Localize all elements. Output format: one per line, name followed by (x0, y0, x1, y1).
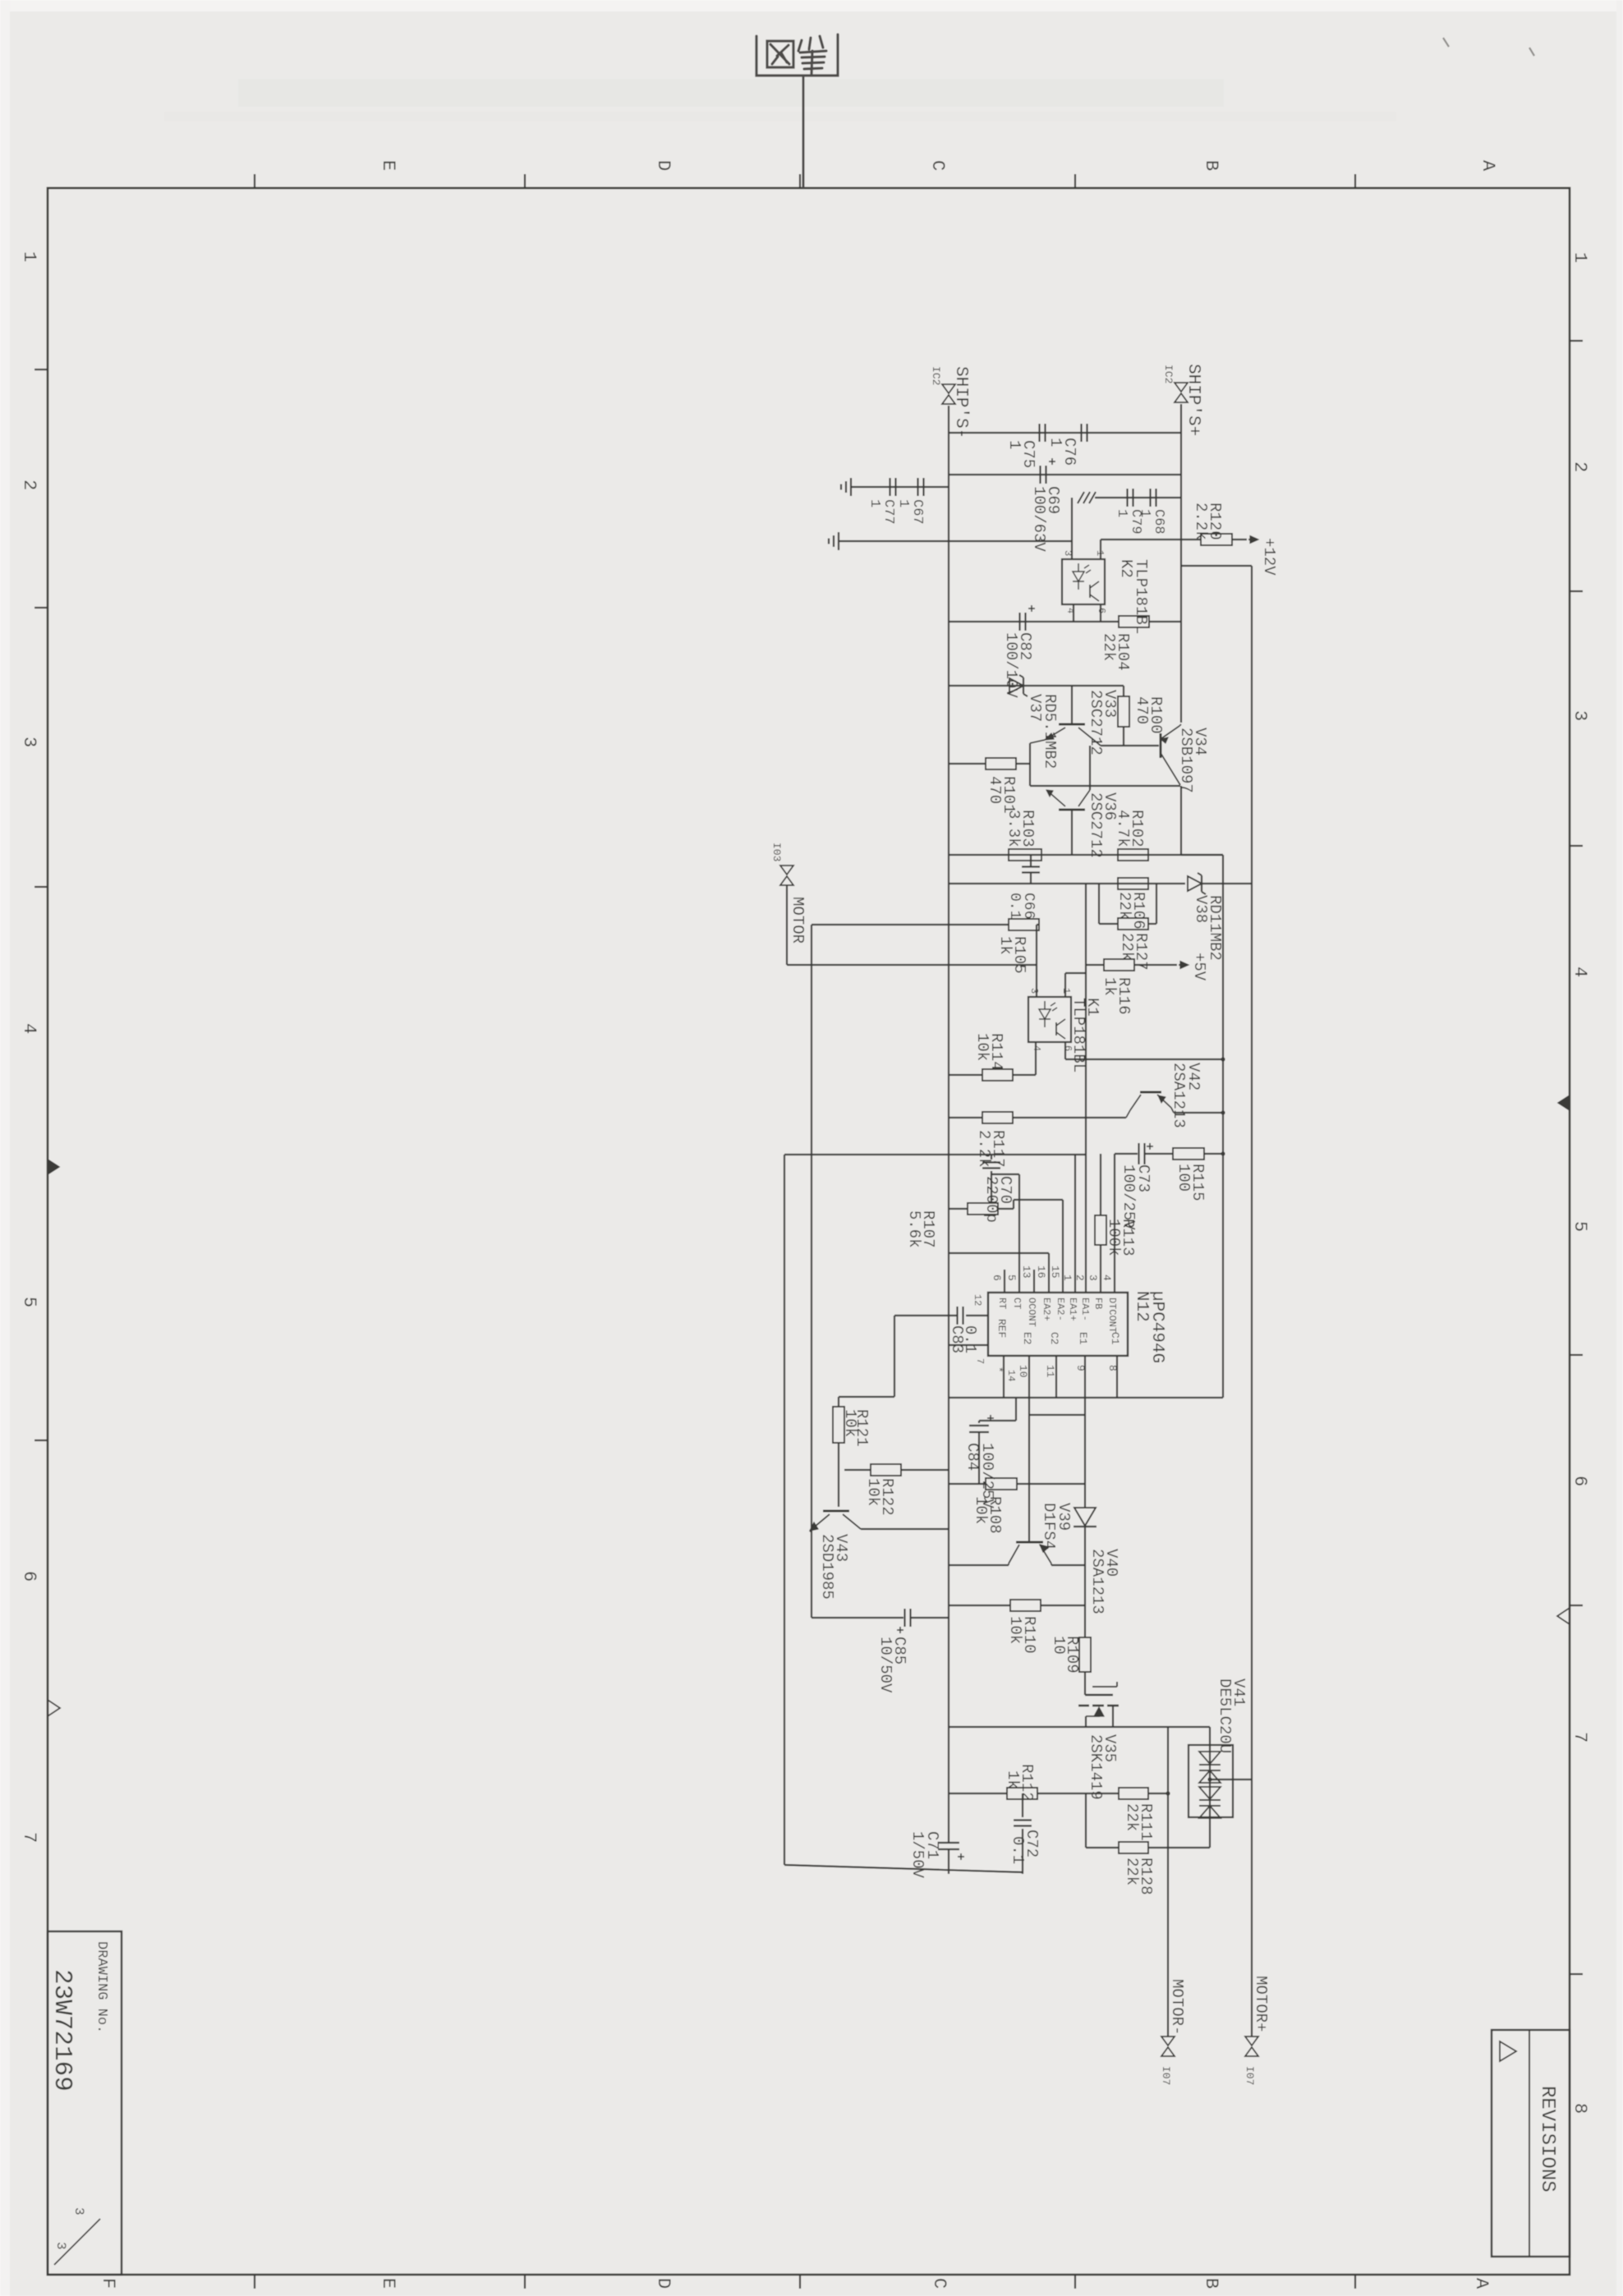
svg-text:3: 3 (1087, 1274, 1099, 1281)
svg-text:TLP181BL: TLP181BL (1069, 998, 1087, 1072)
wire K2 pin3 up-junction (1071, 498, 1073, 559)
svg-text:8: 8 (1106, 1365, 1119, 1371)
wire R115/C73 row py1405 (1115, 1153, 1138, 1155)
wire V36 base down to rail (1071, 810, 1073, 855)
svg-text:1k: 1k (1004, 1770, 1022, 1789)
wire pin16 to bus (949, 1252, 1049, 1254)
wire V35 source row py2103 (949, 1726, 1210, 1728)
ground slashes near C79 (1089, 492, 1096, 503)
wire pin13 stub (1033, 1270, 1035, 1293)
faint pen marks top right (1443, 38, 1534, 56)
svg-text:2SA1213: 2SA1213 (1170, 1063, 1188, 1128)
svg-text:MOTOR+: MOTOR+ (1252, 1976, 1270, 2032)
svg-text:3: 3 (71, 2207, 86, 2216)
svg-text:E2: E2 (1021, 1332, 1033, 1345)
wire pin7 to bus (949, 1344, 988, 1346)
svg-text:10k: 10k (973, 1033, 991, 1061)
transistor V33 2SC2712 (NPN) (1059, 723, 1085, 726)
capacitor C67 1 (917, 478, 918, 496)
svg-text:22k: 22k (1115, 892, 1133, 920)
wire C2 pin11 down (1055, 1356, 1057, 1398)
wire E2/E1 join row py1723 (1029, 1414, 1085, 1416)
svg-text:1: 1 (19, 251, 39, 262)
connector MOTOR+ bowtie I07 (1245, 2037, 1258, 2046)
svg-text:1: 1 (1137, 509, 1152, 517)
wire pin4 vertical to R115 row (1114, 1154, 1115, 1293)
svg-text:4: 4 (1101, 1274, 1113, 1281)
resistor R116 1k to +5V (1086, 964, 1104, 966)
svg-text:4: 4 (1570, 967, 1590, 977)
zener diode V37 RD5.1MB2 (1009, 678, 1023, 693)
svg-text:C1: C1 (1109, 1332, 1121, 1345)
svg-text:RD5.1MB2: RD5.1MB2 (1041, 694, 1059, 769)
ground for C77/C67 (850, 478, 852, 496)
svg-text:10k: 10k (864, 1478, 882, 1506)
svg-text:EA1+: EA1+ (1067, 1297, 1078, 1321)
svg-text:B: B (1201, 160, 1221, 171)
ground lower left (838, 532, 839, 550)
wire R107 to pin15 (998, 1208, 1014, 1210)
title block sheet number 3/3 (54, 2219, 100, 2265)
diode V39 D1FS4 (1084, 1484, 1086, 1508)
wire junction down to R128 row (1085, 1793, 1087, 1848)
wire V41 mid tap to MOTOR+ (1210, 1779, 1252, 1780)
svg-text:DRAWING No.: DRAWING No. (94, 1941, 109, 2033)
svg-text:D: D (653, 160, 674, 171)
resistor R120 2.2k (1201, 534, 1232, 545)
svg-text:9: 9 (1074, 1365, 1087, 1371)
svg-text:100: 100 (1175, 1164, 1193, 1192)
wire pin12 via C83 (966, 1315, 988, 1316)
wire py1406 from left loop to pin2 (784, 1154, 1086, 1155)
svg-text:1: 1 (1570, 252, 1590, 263)
resistor R109 10 (vertical) (1084, 1565, 1086, 1637)
resistor R107 5.6k (949, 1208, 968, 1210)
wire K2 pin1 to bus and R120 (1101, 539, 1201, 540)
handwritten vertical line to frame (802, 76, 805, 188)
capacitor C66 0.1 (1022, 866, 1040, 867)
frame revision marker solid triangle left (48, 1159, 59, 1174)
svg-text:22k: 22k (1123, 1803, 1141, 1831)
wire K1 pin1 up to rail net (1064, 973, 1066, 997)
wire V34 collector bus down (1180, 786, 1182, 855)
frame revision marker open triangle left (48, 1700, 60, 1716)
wire R105 to K1 pin3 vertical (1037, 924, 1039, 925)
wire R105 row py1126 (811, 924, 1009, 925)
wire E1 pin9 down (1084, 1356, 1086, 1415)
svg-text:3.3k: 3.3k (1005, 810, 1023, 847)
wire SHIP'S- ground bus (vertical) (948, 406, 949, 1843)
svg-text:C: C (927, 160, 948, 171)
svg-text:10: 10 (1017, 1365, 1029, 1378)
svg-text:13: 13 (1020, 1265, 1032, 1279)
svg-text:I07: I07 (1160, 2066, 1172, 2085)
frame zone ticks top edge (254, 174, 255, 188)
svg-text:DE5LC20U: DE5LC20U (1216, 1678, 1234, 1753)
svg-text:3: 3 (19, 737, 39, 747)
svg-text:EA2-: EA2- (1055, 1297, 1066, 1321)
K2 internal LED (1073, 572, 1084, 581)
svg-text:2: 2 (1074, 1274, 1086, 1281)
frame revision marker solid triangle right (1558, 1095, 1570, 1110)
handwritten annotation box with kanji (756, 34, 838, 76)
capacitor C84 100/25V electrolytic (1015, 1398, 1017, 1421)
svg-text:1: 1 (895, 499, 911, 507)
optocoupler K2 TLP181BL box (1062, 559, 1105, 604)
svg-text:7: 7 (974, 1358, 986, 1364)
svg-text:+12V: +12V (1260, 538, 1278, 576)
wire left loop vertical px955 (784, 1155, 785, 1865)
wire EA1- long vertical px1322 (1085, 884, 1087, 1293)
wire V42 emitter to output node (1174, 1112, 1223, 1114)
svg-text:DTCONT: DTCONT (1106, 1297, 1118, 1333)
wire C77 C67 chain to ground (851, 486, 949, 488)
wire ground to K2 top (839, 540, 1072, 542)
svg-text:SHIP'S+: SHIP'S+ (1184, 364, 1202, 436)
resistor R114 10k (949, 1074, 982, 1076)
transistor V36 2SC2712 (NPN) (1059, 809, 1085, 811)
svg-text:2: 2 (19, 480, 39, 490)
svg-text:7: 7 (1570, 1732, 1590, 1743)
wire REF pin14 stub (1003, 1356, 1005, 1398)
wire SHIP'S+ bus (vertical) (1180, 404, 1182, 723)
svg-text:C2: C2 (1048, 1332, 1060, 1345)
wire slashed-ground chain py606 (1095, 497, 1181, 498)
svg-text:A: A (1471, 2278, 1492, 2289)
svg-text:1: 1 (1046, 438, 1064, 447)
svg-text:0.1: 0.1 (1009, 1836, 1027, 1864)
resistor R128 22k (1086, 1847, 1119, 1848)
frame row ticks right edge (1570, 340, 1583, 342)
wire left loop vertical px988 (811, 925, 812, 1618)
V41 lower bidirectional zener pair (1199, 1787, 1221, 1799)
svg-text:3: 3 (53, 2242, 68, 2250)
svg-text:6: 6 (991, 1274, 1003, 1281)
wire output node horizontal py1041 (1181, 854, 1223, 856)
svg-text:11: 11 (1044, 1365, 1056, 1378)
wire emitters to collector row py957 (1030, 785, 1180, 787)
K2 internal transistor (1089, 585, 1091, 598)
svg-text:REVISIONS: REVISIONS (1536, 2086, 1558, 2193)
svg-text:2SK1419: 2SK1419 (1087, 1734, 1105, 1800)
resistor R108 10k (986, 1478, 1017, 1490)
svg-text:OCONT: OCONT (1026, 1297, 1037, 1327)
resistor R115 100 (1173, 1148, 1204, 1159)
svg-text:5: 5 (1570, 1221, 1590, 1232)
resistor R106 22k (on rail) (1118, 878, 1148, 889)
svg-text:2SD1985: 2SD1985 (818, 1534, 836, 1600)
wire C70 to pin5 (991, 1173, 1019, 1175)
frame row ticks left edge (34, 369, 48, 370)
svg-text:4: 4 (19, 1023, 39, 1034)
svg-text:22k: 22k (1118, 933, 1136, 961)
svg-text:*: * (992, 1366, 1005, 1373)
svg-text:1/50V: 1/50V (908, 1831, 926, 1879)
wire emitter junction vertical px1254 (1029, 743, 1031, 786)
svg-text:22k: 22k (1123, 1857, 1141, 1885)
svg-text:CT: CT (1011, 1297, 1023, 1309)
capacitor C72 0.1 (1022, 1793, 1023, 1817)
svg-text:2: 2 (1570, 461, 1590, 472)
svg-text:14: 14 (1005, 1370, 1017, 1381)
transistor V34 2SB1097 (PNP) (1160, 733, 1162, 758)
svg-text:8: 8 (1570, 2103, 1590, 2114)
resistor R110 10k (1010, 1600, 1041, 1611)
svg-text:10k: 10k (841, 1409, 859, 1437)
resistor R102 4.7k (1118, 849, 1148, 861)
svg-text:10: 10 (1050, 1636, 1068, 1655)
wire V33 base up to V37 net (1071, 686, 1073, 724)
resistor R127 22k (parallel below) (1098, 884, 1100, 924)
wire K1 pin6 down and right to output node (1064, 1042, 1066, 1059)
svg-text:E1: E1 (1077, 1332, 1089, 1345)
svg-text:3: 3 (1028, 988, 1040, 994)
svg-text:10k: 10k (972, 1496, 990, 1524)
transistor V42 2SA1213 (PNP) (1140, 1091, 1161, 1094)
wire emitter rail to V39 (1084, 1415, 1086, 1484)
svg-text:470: 470 (1133, 696, 1151, 724)
svg-text:1k: 1k (1101, 977, 1119, 996)
capacitor C71 1/50V electrolytic (938, 1842, 959, 1844)
svg-text:FB: FB (1092, 1297, 1104, 1309)
wire bottom return py1702 under IC (949, 1397, 1223, 1398)
resistor R117 2.2k (949, 1117, 982, 1118)
resistor R122 10k (871, 1464, 901, 1476)
revision open triangle symbol (1500, 2041, 1516, 2061)
frame zone ticks bottom edge (524, 2275, 526, 2289)
capacitor C79 1 (1126, 489, 1128, 507)
resistor R101 470 (949, 763, 986, 765)
svg-text:B: B (1201, 2278, 1221, 2289)
svg-text:6: 6 (1570, 1476, 1590, 1486)
svg-text:5.6k: 5.6k (905, 1210, 923, 1248)
frame revision marker open triangle right (1557, 1608, 1570, 1624)
svg-text:23W72169: 23W72169 (48, 1969, 76, 2092)
svg-text:1: 1 (1005, 440, 1023, 449)
wire R108 row py1807 (949, 1483, 986, 1485)
V41 upper bidirectional zener pair (1199, 1752, 1221, 1764)
svg-text:E: E (378, 2278, 398, 2289)
svg-text:RT: RT (996, 1297, 1008, 1309)
svg-text:1: 1 (1061, 1274, 1074, 1281)
+12V arrow terminal (1232, 539, 1247, 540)
wire K1 pin4 down join R114 row (1035, 1042, 1037, 1075)
svg-text:A: A (1478, 160, 1498, 172)
connector IC2 SHIP'S- bowtie (942, 384, 955, 393)
MOSFET V35 2SK1419 (1084, 1672, 1086, 1695)
resistor R104 22k (1119, 616, 1149, 627)
svg-text:SHIP'S-: SHIP'S- (951, 366, 970, 439)
svg-text:F: F (98, 2278, 118, 2289)
svg-text:MOTOR-: MOTOR- (1168, 1979, 1186, 2035)
svg-text:5: 5 (19, 1297, 39, 1307)
REVISIONS table box (1492, 2030, 1570, 2257)
svg-text:12: 12 (972, 1294, 983, 1306)
capacitor C85 10/50V electrolytic (811, 1617, 903, 1619)
wire V37 row py835 (949, 685, 1124, 687)
svg-text:IC2: IC2 (1162, 365, 1175, 383)
capacitor C73 100/25V electrolytic (1138, 1143, 1139, 1164)
wire C83 left loop to R121 (894, 1315, 957, 1316)
svg-text:EA2+: EA2+ (1041, 1297, 1052, 1321)
svg-text:RD11MB2: RD11MB2 (1206, 895, 1224, 961)
capacitor C75 1 (1038, 424, 1040, 442)
connector MOTOR- bowtie I07 (1161, 2037, 1175, 2046)
wire emitter rail to V40 base (1028, 1415, 1030, 1542)
wire MOTOR+ long vertical (1251, 566, 1253, 2037)
resistor R112 1k (1007, 1788, 1037, 1799)
svg-text:3: 3 (1570, 710, 1590, 721)
wire K2 pin6 stub (1100, 604, 1101, 622)
wire V43 emitter to px988 (810, 1531, 811, 1532)
svg-text:100k: 100k (1105, 1219, 1123, 1256)
capacitor C70 2200p (991, 1155, 992, 1159)
svg-text:1: 1 (867, 499, 882, 507)
svg-text:E: E (378, 160, 398, 171)
svg-text:100/63V: 100/63V (1030, 486, 1048, 552)
wire C82 row py757 (949, 621, 1119, 622)
V41 DE5LC20U box (1189, 1745, 1233, 1817)
resistor R121 10k (vertical) (838, 1397, 839, 1407)
wire py527 between buses (949, 432, 1181, 434)
wire R112 row py2184 (949, 1793, 1007, 1794)
wire pin1 vertical (1074, 1155, 1076, 1293)
wire R110 row py1955 (949, 1605, 1010, 1606)
connector IC2 SHIP'S+ bowtie (1175, 383, 1188, 392)
svg-text:TLP181BL: TLP181BL (1132, 559, 1150, 634)
svg-text:2SA1213: 2SA1213 (1088, 1549, 1106, 1614)
svg-text:2.2k: 2.2k (1192, 503, 1210, 540)
resistor R111 22k (1086, 1793, 1119, 1794)
svg-text:7: 7 (19, 1832, 39, 1843)
wire rail py1041 (949, 854, 1223, 856)
capacitor C83 0.1 (956, 1306, 958, 1325)
svg-text:C: C (929, 2278, 949, 2289)
capacitor C68 1 (1149, 489, 1151, 507)
svg-text:+5V: +5V (1190, 953, 1208, 981)
K1 internal transistor (1055, 1022, 1057, 1035)
svg-text:22k: 22k (1100, 633, 1118, 661)
wire rail py1076 (949, 883, 1185, 884)
junction dots (1221, 1151, 1225, 1155)
svg-text:REF: REF (995, 1319, 1008, 1338)
svg-text:1: 1 (1094, 550, 1106, 556)
K1 internal LED (1039, 1009, 1051, 1019)
optocoupler K1 TLP181BL box (1028, 997, 1071, 1042)
wire V41 center vertical (1209, 1727, 1211, 1848)
svg-text:I03: I03 (770, 843, 783, 861)
zener diode V38 RD11MB2 (1188, 876, 1202, 891)
svg-text:EA1-: EA1- (1079, 1297, 1091, 1321)
capacitor C69 100/63V electrolytic (1039, 466, 1041, 484)
svg-text:D: D (653, 2278, 674, 2289)
svg-text:2200p: 2200p (982, 1176, 1000, 1223)
resistor R113 100k on FB line (1100, 1154, 1101, 1215)
capacitor C76 1 (1080, 424, 1082, 442)
svg-text:16: 16 (1035, 1265, 1047, 1279)
svg-text:10/50V: 10/50V (876, 1637, 894, 1693)
svg-text:I07: I07 (1244, 2066, 1256, 2085)
resistor R105 1k (1009, 919, 1039, 930)
resistor R100 470 (vertical) (1123, 686, 1124, 696)
wire E2 pin10 down (1028, 1356, 1030, 1415)
title block DRAWING No. box (48, 1931, 122, 2275)
svg-text:6: 6 (19, 1571, 39, 1582)
svg-text:3: 3 (1062, 550, 1074, 556)
svg-text:4.7k: 4.7k (1114, 810, 1132, 847)
wire bottom rail (784, 1865, 1023, 1872)
wire MOTOR down and right py1175 (786, 885, 788, 965)
wire V33 collector to V34 base row py908 (1096, 742, 1101, 746)
svg-text:2SB1097: 2SB1097 (1177, 728, 1195, 793)
svg-text:15: 15 (1049, 1265, 1061, 1279)
wire branch to +12V rail right (1181, 565, 1252, 567)
svg-text:0.1: 0.1 (961, 1325, 979, 1353)
wire C1 pin8 down (1116, 1356, 1118, 1398)
svg-text:1: 1 (1114, 509, 1129, 517)
svg-text:MOTOR: MOTOR (789, 897, 807, 944)
wire output node vertical px1489 (1222, 855, 1224, 1398)
capacitor C82 100/10V electrolytic (1018, 613, 1020, 631)
wire py578 between buses (949, 474, 1181, 475)
svg-text:5: 5 (1005, 1274, 1018, 1281)
svg-text:IC2: IC2 (930, 366, 942, 385)
svg-text:470: 470 (986, 776, 1004, 804)
resistor R103 3.3k (1009, 849, 1041, 861)
wire K2 pin4 stub (1073, 604, 1074, 622)
wire MOTOR- vertical (1167, 1727, 1169, 2037)
svg-text:1k: 1k (996, 936, 1014, 955)
svg-text:2SC2712: 2SC2712 (1087, 792, 1105, 858)
capacitor C77 1 (889, 478, 890, 496)
transistor V43 2SD1985 (NPN) (823, 1510, 849, 1513)
wire pin6 stub (1004, 1270, 1005, 1293)
IC N12 uPC494G box (988, 1293, 1128, 1356)
svg-text:µPC494G: µPC494G (1147, 1291, 1166, 1363)
svg-text:0.1: 0.1 (1006, 893, 1023, 919)
svg-text:10k: 10k (1006, 1616, 1024, 1644)
transistor V40 2SA1213 (PNP) (1016, 1541, 1043, 1544)
